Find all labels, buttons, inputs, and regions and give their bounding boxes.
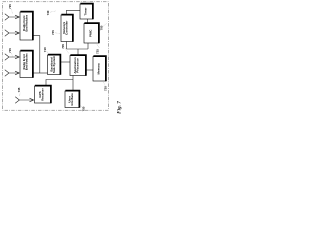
svg-text:720: 720 — [104, 86, 108, 91]
svg-text:Controller: Controller — [64, 20, 68, 35]
svg-text:700: 700 — [100, 25, 104, 30]
svg-text:Receiver: Receiver — [40, 87, 44, 100]
svg-text:Timer: Timer — [84, 7, 88, 16]
svg-text:Interface: Interface — [70, 93, 74, 106]
svg-text:Fig. 7: Fig. 7 — [117, 101, 123, 114]
svg-text:Memory: Memory — [96, 63, 100, 75]
svg-text:710: 710 — [43, 47, 47, 52]
svg-text:715: 715 — [8, 4, 12, 9]
svg-text:PMIC: PMIC — [88, 29, 92, 37]
svg-text:745: 745 — [17, 87, 21, 92]
svg-text:735: 735 — [51, 30, 55, 35]
svg-text:705: 705 — [61, 44, 65, 49]
svg-text:715: 715 — [8, 48, 12, 53]
svg-text:Processor: Processor — [75, 57, 79, 73]
svg-text:Sub-System: Sub-System — [52, 56, 56, 74]
svg-text:End Modules: End Modules — [25, 53, 29, 70]
svg-text:End Modules: End Modules — [25, 14, 29, 31]
svg-text:725: 725 — [96, 49, 100, 54]
svg-text:750: 750 — [82, 106, 86, 111]
svg-text:740: 740 — [46, 10, 50, 15]
